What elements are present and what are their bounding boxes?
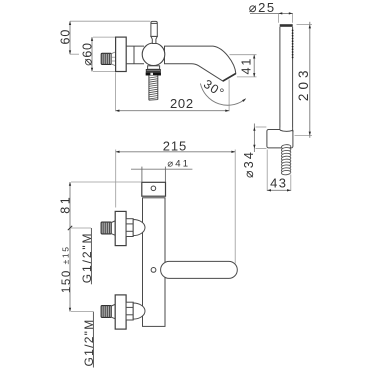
dark collar band — [146, 69, 160, 71]
svg-text:43: 43 — [270, 176, 287, 191]
dimension 150 extension at bottom inlet axis — [71, 311, 93, 313]
bottom inlet: eccentric dome — [133, 303, 145, 319]
svg-text:215: 215 — [163, 138, 187, 153]
dimension 60: label — [59, 29, 73, 45]
svg-text:⌀25: ⌀25 — [249, 0, 276, 15]
svg-text:⌀60: ⌀60 — [81, 42, 95, 66]
spout body (closed outline) — [165, 46, 236, 81]
bottom inlet: taper cone — [111, 304, 115, 319]
svg-text:⌀41: ⌀41 — [167, 158, 190, 169]
dimension 43: label — [270, 176, 287, 191]
dimension 215: dimension line — [116, 151, 236, 153]
neck ring under ball — [148, 66, 160, 70]
screw hole on column — [151, 268, 156, 273]
svg-text:G1/2"M: G1/2"M — [82, 318, 96, 366]
dimension ⌀41: dimension line with leader — [131, 168, 192, 170]
threaded hose tail — [149, 75, 158, 100]
shower head cap — [280, 24, 293, 27]
threaded inlet nipple (side view) — [101, 53, 111, 64]
dimension 43: extension lines — [267, 150, 291, 192]
bottom inlet: wall flange — [115, 295, 126, 329]
dimension ⌀60: label — [81, 42, 95, 66]
dimension 41: label — [240, 57, 254, 75]
taper cone between nipple and flange — [112, 52, 116, 66]
dimension ⌀25: label — [249, 0, 276, 15]
body tube lines — [126, 46, 144, 64]
mixer ball body — [142, 43, 165, 66]
dimension ⌀34: extension lines — [256, 127, 267, 149]
handle stem taper — [151, 36, 157, 43]
svg-text:150 ±15: 150 ±15 — [61, 245, 73, 293]
dimension 60: dimension line — [69, 21, 71, 54]
top inlet: taper cone — [111, 221, 115, 236]
svg-text:41: 41 — [240, 57, 254, 75]
dimension 203: extension lines — [295, 25, 313, 136]
dimension 60: extension stub at body axis — [70, 53, 79, 55]
dimension ⌀34: dimension line — [253, 124, 255, 153]
svg-text:203: 203 — [296, 67, 311, 102]
top inlet: threaded nipple — [101, 222, 111, 234]
top wall bracket cap (front view) — [142, 182, 166, 196]
G1/2"M top label — [80, 232, 94, 284]
30° label — [201, 77, 227, 101]
wall flange (side view) — [116, 37, 127, 71]
dimension 41: extension lines — [230, 55, 257, 77]
dimension 41: dimension line — [253, 55, 255, 77]
lever handle knob — [151, 21, 157, 36]
G1/2"M top label leader — [90, 228, 92, 284]
dimension ⌀34: label — [242, 150, 256, 178]
svg-text:60: 60 — [59, 29, 73, 45]
dimension 203: label — [296, 67, 311, 102]
G1/2"M bottom label — [82, 318, 96, 366]
dimension ⌀25: extension stubs — [279, 13, 293, 22]
mixer column body (front view) — [143, 198, 166, 327]
svg-text:202: 202 — [170, 96, 194, 111]
dimension 203: dimension line — [309, 22, 311, 138]
dimension 215: label — [163, 138, 187, 153]
nozzle dots — [292, 30, 294, 59]
dimension 202: extension lines — [116, 73, 230, 112]
dimension 43: dimension line — [267, 189, 291, 191]
top inlet: eccentric dome — [133, 220, 145, 236]
dimension ⌀41: extension lines crossing dimension line — [142, 167, 166, 182]
shower hose coil — [281, 144, 291, 175]
dimension 202: dimension line — [116, 110, 230, 112]
dimension ⌀25: leader/dimension line — [250, 12, 293, 14]
svg-text:81: 81 — [59, 195, 73, 214]
dimension 215: extension lines — [116, 150, 236, 264]
lever handle (front view) — [161, 261, 238, 278]
dimension 202: label — [170, 96, 194, 111]
dimension ⌀60: dimension line — [91, 37, 93, 71]
top inlet: wall flange — [115, 211, 126, 245]
screw hole in cap — [151, 186, 156, 191]
30° angle arc — [200, 84, 245, 106]
shower handle body — [280, 27, 293, 130]
bottom inlet: threaded nipple — [101, 306, 111, 318]
dimension 81: extension line at column top — [71, 181, 141, 183]
bottom inlet: union rings — [126, 302, 133, 320]
dimension 81+150 dimension line — [68, 182, 72, 312]
spout tip face (thick) — [223, 74, 236, 82]
dimension 81/150 shared extension at top inlet axis — [71, 227, 91, 229]
dimension ⌀60: extension lines — [93, 37, 115, 71]
dimension 60: extension line at handle top — [70, 20, 150, 22]
handle seated in bracket (mask) — [280, 128, 293, 133]
svg-text:G1/2"M: G1/2"M — [80, 232, 94, 284]
wall bracket holder — [267, 130, 293, 148]
svg-text:⌀34: ⌀34 — [242, 150, 256, 178]
dimension 150 ±15: label — [61, 245, 73, 293]
top inlet: union rings — [126, 219, 133, 237]
G1/2"M bottom label leader — [92, 312, 94, 368]
dimension ⌀41: label — [167, 158, 190, 169]
black check-valve band — [146, 72, 161, 75]
dimension 81: label — [59, 195, 73, 214]
